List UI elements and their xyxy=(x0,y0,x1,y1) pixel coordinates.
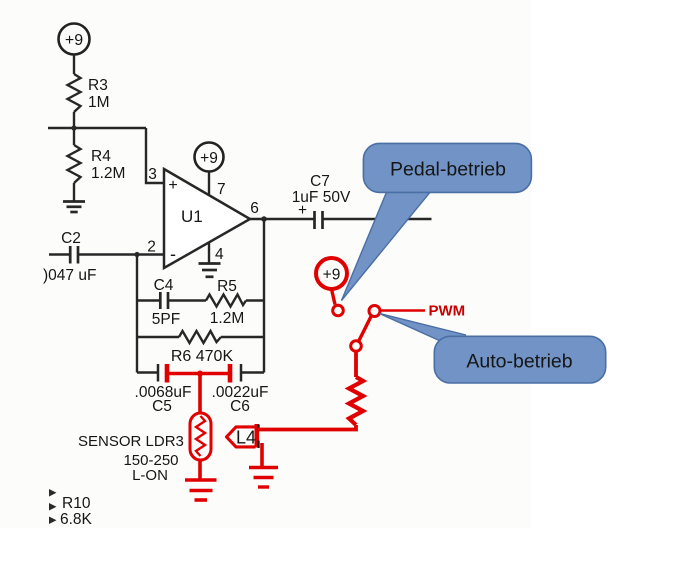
switch pole contact xyxy=(351,341,362,352)
capacitor C4 xyxy=(152,277,180,328)
wire feedback row 3 left xyxy=(137,371,158,373)
svg-text:C7: C7 xyxy=(310,173,330,190)
svg-text:+9: +9 xyxy=(65,32,83,49)
wire feedback row 3 right xyxy=(241,371,264,373)
lamp L4 xyxy=(227,424,259,448)
wire red tee xyxy=(167,372,230,376)
wire R4 to ground xyxy=(73,183,75,201)
svg-text:5PF: 5PF xyxy=(152,311,180,328)
svg-text:Pedal-betrieb: Pedal-betrieb xyxy=(390,159,506,181)
svg-text:+: + xyxy=(168,177,177,194)
svg-text:2: 2 xyxy=(147,239,156,256)
svg-text:PWM: PWM xyxy=(429,303,466,320)
wire red down to sensor xyxy=(198,374,202,415)
wire +9 to pin 7 xyxy=(208,172,210,195)
svg-text:R6 470K: R6 470K xyxy=(171,348,234,365)
svg-text:6: 6 xyxy=(250,200,259,217)
power +9 (red) xyxy=(316,258,347,289)
svg-text:+: + xyxy=(298,202,307,219)
svg-text:R3: R3 xyxy=(88,77,108,94)
wire feedback row 2 xyxy=(137,336,264,338)
svg-text:U1: U1 xyxy=(181,207,203,226)
wire L4 to ground xyxy=(260,443,264,468)
svg-text:R10: R10 xyxy=(62,495,91,512)
wire sensor to ground xyxy=(198,460,202,479)
svg-text:+9: +9 xyxy=(323,267,341,284)
svg-text:L-ON: L-ON xyxy=(132,467,168,484)
wire C2 to pin 2 xyxy=(78,253,164,255)
callout Pedal-betrieb xyxy=(342,143,532,300)
wire +9 to R3 xyxy=(73,55,75,75)
svg-text:1.2M: 1.2M xyxy=(91,165,125,182)
resistor (red, switch leg) xyxy=(349,377,363,425)
wire feedback row 1 xyxy=(137,299,264,301)
wire bus to op-amp pin 3 xyxy=(146,128,164,183)
wire L4 to switch resistor xyxy=(258,425,356,430)
node output junction xyxy=(261,216,267,222)
callout Auto-betrieb xyxy=(380,314,606,384)
svg-text:C2: C2 xyxy=(61,230,81,247)
pin 4 wire xyxy=(208,242,210,263)
svg-text:R5: R5 xyxy=(217,278,237,295)
wire pin 6 output xyxy=(250,218,432,220)
wire feedback left vertical xyxy=(136,255,138,373)
svg-text:L4: L4 xyxy=(236,428,256,448)
svg-text:7: 7 xyxy=(217,181,226,198)
ground (below R4) xyxy=(63,202,85,213)
node red tee junction xyxy=(197,371,203,377)
capacitor C5 xyxy=(135,364,192,415)
ground (op-amp pin 4) xyxy=(199,264,221,277)
svg-text:)047 uF: )047 uF xyxy=(43,267,96,284)
switch contact PWM side xyxy=(369,306,380,317)
capacitor C6 xyxy=(212,364,269,415)
switch arm xyxy=(359,316,372,342)
sensor LDR3 xyxy=(78,413,211,484)
node bus junction xyxy=(71,125,76,130)
svg-text:SENSOR LDR3: SENSOR LDR3 xyxy=(78,433,184,450)
svg-text:3: 3 xyxy=(148,166,157,183)
svg-text:C5: C5 xyxy=(152,398,172,415)
svg-text:+9: +9 xyxy=(200,150,218,167)
power +9 (op-amp supply) xyxy=(195,143,224,172)
svg-text:C4: C4 xyxy=(154,277,174,294)
resistor R5 xyxy=(206,278,246,327)
switch contact +9 side xyxy=(333,305,344,316)
power +9 (left rail) xyxy=(59,24,90,55)
wire R3 to bus xyxy=(73,112,75,128)
resistor R6 xyxy=(171,331,234,365)
svg-text:1M: 1M xyxy=(88,94,110,111)
wire horizontal bus xyxy=(48,127,146,129)
capacitor C2 xyxy=(43,230,96,284)
resistor R4 xyxy=(68,145,126,183)
capacitor C7 xyxy=(292,173,351,229)
svg-text:Auto-betrieb: Auto-betrieb xyxy=(466,351,572,373)
wire feedback right vertical xyxy=(263,219,265,373)
wire to PWM xyxy=(380,309,425,312)
svg-text:1.2M: 1.2M xyxy=(210,310,244,327)
svg-text:-: - xyxy=(170,244,176,264)
svg-text:4: 4 xyxy=(215,246,224,263)
wire resistor to switch pole xyxy=(354,351,358,377)
svg-text:6.8K: 6.8K xyxy=(60,511,93,528)
wire bus to R4 xyxy=(73,128,75,145)
op-amp U1 xyxy=(164,169,250,268)
svg-text:R4: R4 xyxy=(91,148,111,165)
wire +9 to contact xyxy=(332,289,336,305)
resistor R10 (clipped at edge) xyxy=(49,489,93,528)
svg-text:C6: C6 xyxy=(230,398,250,415)
ground (L4, red) xyxy=(249,468,278,488)
ground (sensor, red) xyxy=(185,480,217,500)
node feedback left junction xyxy=(134,252,139,257)
resistor R3 xyxy=(68,74,110,112)
